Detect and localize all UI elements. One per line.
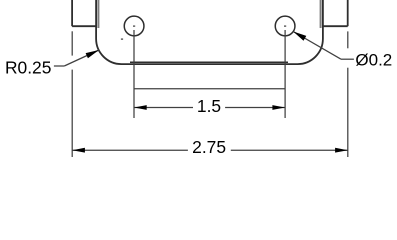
- dimension line 1.5 right segment: [225, 107, 285, 109]
- part outer right edge: [347, 0, 349, 26]
- leader R0.25 diagonal: [64, 50, 99, 66]
- leader D0.2 landing: [341, 58, 354, 60]
- arrow R0.25: [86, 50, 99, 58]
- connecting line between centerlines: [134, 88, 285, 90]
- part left step edge: [72, 25, 96, 27]
- part right step edge: [323, 25, 348, 27]
- part inner shell edge right: [320, 0, 322, 28]
- part outer left edge: [71, 0, 73, 26]
- part inner bottom edge: [130, 61, 288, 63]
- extension line right of 2.75 lower: [347, 68, 349, 157]
- arrow D0.2: [293, 32, 306, 41]
- leader D0.2 diagonal: [293, 32, 341, 60]
- extension line right of 2.75 upper: [347, 31, 349, 48]
- arrow 1.5 left: [134, 105, 147, 110]
- arrow 2.75 left: [72, 148, 85, 153]
- extension line left of 2.75 upper: [71, 31, 73, 55]
- svg-text:1.5: 1.5: [197, 96, 221, 116]
- hole left circle: [124, 16, 144, 36]
- dimension line 1.5 left segment: [134, 107, 193, 109]
- arrow 1.5 right: [272, 105, 285, 110]
- hole right center dash: [284, 25, 286, 27]
- leader R0.25 landing: [54, 65, 64, 67]
- part inner body outline with R0.25 corners: [96, 0, 323, 64]
- svg-text:2.75: 2.75: [192, 137, 226, 157]
- dimension line 2.75 left segment: [72, 149, 188, 151]
- hole left center dash: [133, 25, 135, 27]
- arc center dash: [121, 38, 123, 40]
- dimension line 2.75 right segment: [231, 149, 348, 151]
- extension line left of 2.75 lower: [71, 70, 73, 157]
- arrow 2.75 right: [335, 148, 348, 153]
- svg-text:R0.25: R0.25: [5, 58, 51, 78]
- part inner shell edge left: [97, 0, 99, 28]
- hole right circle: [275, 16, 295, 36]
- centerline below left hole: [133, 30, 135, 118]
- centerline below right hole: [284, 30, 286, 118]
- svg-text:Ø0.2: Ø0.2: [355, 50, 392, 69]
